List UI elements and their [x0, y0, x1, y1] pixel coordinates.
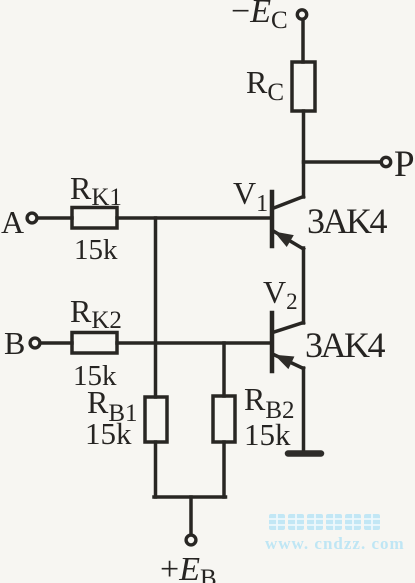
wire node A down to RB1: [154, 218, 158, 397]
terminal P: [381, 157, 390, 166]
svg-text:3AK4: 3AK4: [305, 325, 385, 365]
terminal A: [27, 213, 37, 223]
transistor V2 base bar: [270, 313, 275, 371]
svg-text:3AK4: 3AK4: [307, 201, 387, 241]
resistor RK1: [72, 208, 117, 229]
svg-text:15k: 15k: [244, 417, 291, 452]
wire -EC to RC: [301, 20, 305, 63]
wire A to RK1: [38, 216, 73, 220]
wire V2 emitter to ground: [302, 368, 306, 450]
resistor RB2: [213, 396, 235, 442]
transistor V1 collector lead: [273, 197, 304, 209]
transistor V1 base bar: [270, 192, 275, 246]
transistor V2 emitter arrow: [277, 356, 293, 367]
svg-text:P: P: [394, 144, 415, 185]
wire RK1 to V1 base: [117, 216, 270, 220]
resistor RK2: [72, 333, 117, 354]
wire node B down to RB2: [222, 343, 226, 396]
wire B to RK2: [41, 341, 73, 345]
resistor RC: [292, 62, 315, 111]
terminal B: [30, 338, 40, 348]
transistor V2 emitter lead: [273, 354, 304, 369]
wire RK2 to V2 base: [117, 341, 270, 345]
transistor V2 collector lead: [273, 323, 304, 333]
terminal +EB: [186, 535, 196, 545]
wire RB1 to bottom rail: [154, 442, 158, 497]
ground: [288, 450, 321, 457]
wire RB2 to bottom rail: [222, 442, 226, 497]
svg-text:B: B: [4, 325, 25, 361]
wire V1 emitter to V2 collector: [302, 248, 306, 323]
svg-text:www. cndzz. com: www. cndzz. com: [265, 534, 405, 553]
terminal -EC: [297, 10, 306, 19]
watermark line 1: [269, 514, 380, 530]
svg-text:A: A: [1, 204, 24, 240]
transistor V1 emitter arrow: [277, 233, 293, 245]
transistor V1 emitter lead: [273, 231, 304, 250]
resistor RB1: [145, 397, 167, 442]
wire rail to EB terminal: [189, 497, 193, 534]
svg-text:15k: 15k: [85, 416, 132, 451]
wire node to P: [304, 160, 382, 164]
bottom rail wire: [154, 495, 226, 499]
svg-text:15k: 15k: [74, 234, 118, 266]
wire RC to collector node: [302, 111, 306, 197]
